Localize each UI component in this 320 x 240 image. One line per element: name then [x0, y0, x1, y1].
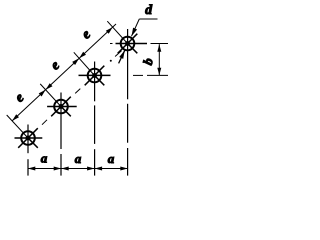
bottom a dimension line: [28, 168, 128, 170]
hole H1 center dot: [26, 136, 31, 141]
hole H2 vertical spoke + extension to bottom dimension: [60, 93, 62, 150]
svg-text:a: a: [108, 151, 115, 166]
d leader arrow at top-right of hole H4: [132, 28, 138, 37]
svg-text:b: b: [140, 56, 156, 67]
hole H2 SE diagonal spoke: [61, 107, 71, 117]
hole H3 NE diagonal spoke: [95, 66, 105, 76]
svg-text:a: a: [41, 151, 48, 166]
hole H3 horizontal centerline dash toward b extension: [133, 74, 143, 76]
arrow at P1 pointing down-left: [12, 114, 19, 121]
hole H1 NE diagonal spoke: [28, 128, 38, 138]
hole H4 vertical spoke + extension to bottom dimension: [127, 29, 129, 99]
bottom arrow at x4 pointing right: [120, 167, 128, 171]
centerline dot between H3 and H4: [110, 60, 112, 62]
hole H3 center dot: [92, 73, 97, 78]
hole H4 SE diagonal spoke: [128, 44, 138, 54]
svg-text:d: d: [145, 3, 153, 18]
arrow at P3 pointing up-right: [72, 58, 79, 65]
hole H3 NW extension line to e-dimension: [74, 52, 95, 75]
arrow at P3 pointing down-left: [79, 52, 86, 59]
bottom arrows at x2: [54, 167, 62, 171]
bottom arrows at x3: [87, 167, 95, 171]
b dimension line (vertical right): [158, 44, 160, 75]
bottom arrow at x1 pointing left: [28, 167, 36, 171]
hole H3 horizontal centerline extension for b dimension: [147, 74, 168, 76]
hole H1 vertical spoke + extension to bottom dimension: [27, 125, 29, 154]
d leader shoulder: [139, 18, 157, 20]
hole H3 vertical spoke + extension to bottom dimension: [94, 62, 96, 102]
centerline dash between H3 and H4: [115, 51, 121, 57]
hole H4 SW diagonal spoke: [118, 44, 128, 54]
svg-text:e: e: [79, 27, 94, 42]
svg-text:e: e: [12, 90, 27, 105]
hole H2 NE diagonal spoke: [61, 97, 71, 107]
b arrow down: [157, 68, 161, 76]
hole H4 horizontal spoke: [116, 43, 148, 45]
hole H1 NW extension line to e-dimension: [7, 115, 28, 138]
d leader slant line: [132, 19, 140, 36]
hole H4 center dot: [125, 41, 130, 46]
e dimension line (diagonal): [12, 24, 116, 121]
hole H2 center dot: [59, 104, 64, 109]
hole H2 horizontal spoke: [47, 106, 77, 108]
hole H4 circle: [121, 37, 135, 51]
svg-text:a: a: [75, 151, 82, 166]
hole H3 horizontal spoke left part: [79, 74, 111, 76]
hole H1 SE diagonal spoke: [28, 138, 38, 148]
arrow at P2 pointing down-left: [46, 83, 53, 90]
hole H4 NE diagonal spoke: [128, 34, 138, 44]
hole H1 circle: [21, 131, 35, 145]
centerline dash between H1 and H2: [42, 120, 47, 125]
hole H2 NW extension line to e-dimension: [40, 84, 61, 107]
hole H3 SW diagonal spoke: [85, 76, 95, 86]
d opposite arrow shaft: [119, 50, 125, 63]
hole H2 circle: [54, 100, 68, 114]
hole H4 NW extension line to e-dimension: [107, 21, 127, 43]
d opposite arrow at bottom-left of hole H4: [119, 50, 125, 59]
hole H3 circle: [88, 69, 102, 83]
b arrow up: [157, 44, 161, 52]
hole H3 SE diagonal spoke: [95, 76, 105, 86]
hole H4 horizontal centerline small left dash: [110, 43, 113, 45]
hole H4 horizontal centerline extension for b dimension: [151, 43, 169, 45]
hole H1 horizontal spoke: [15, 137, 43, 139]
hole H1 SW diagonal spoke: [18, 138, 28, 148]
svg-text:e: e: [48, 58, 63, 73]
hole H2 SW diagonal spoke: [51, 107, 61, 117]
centerline dash between H2 and H3: [75, 89, 80, 94]
arrow at P2 pointing up-right: [39, 90, 46, 97]
arrow at P4 pointing up-right: [106, 27, 113, 34]
